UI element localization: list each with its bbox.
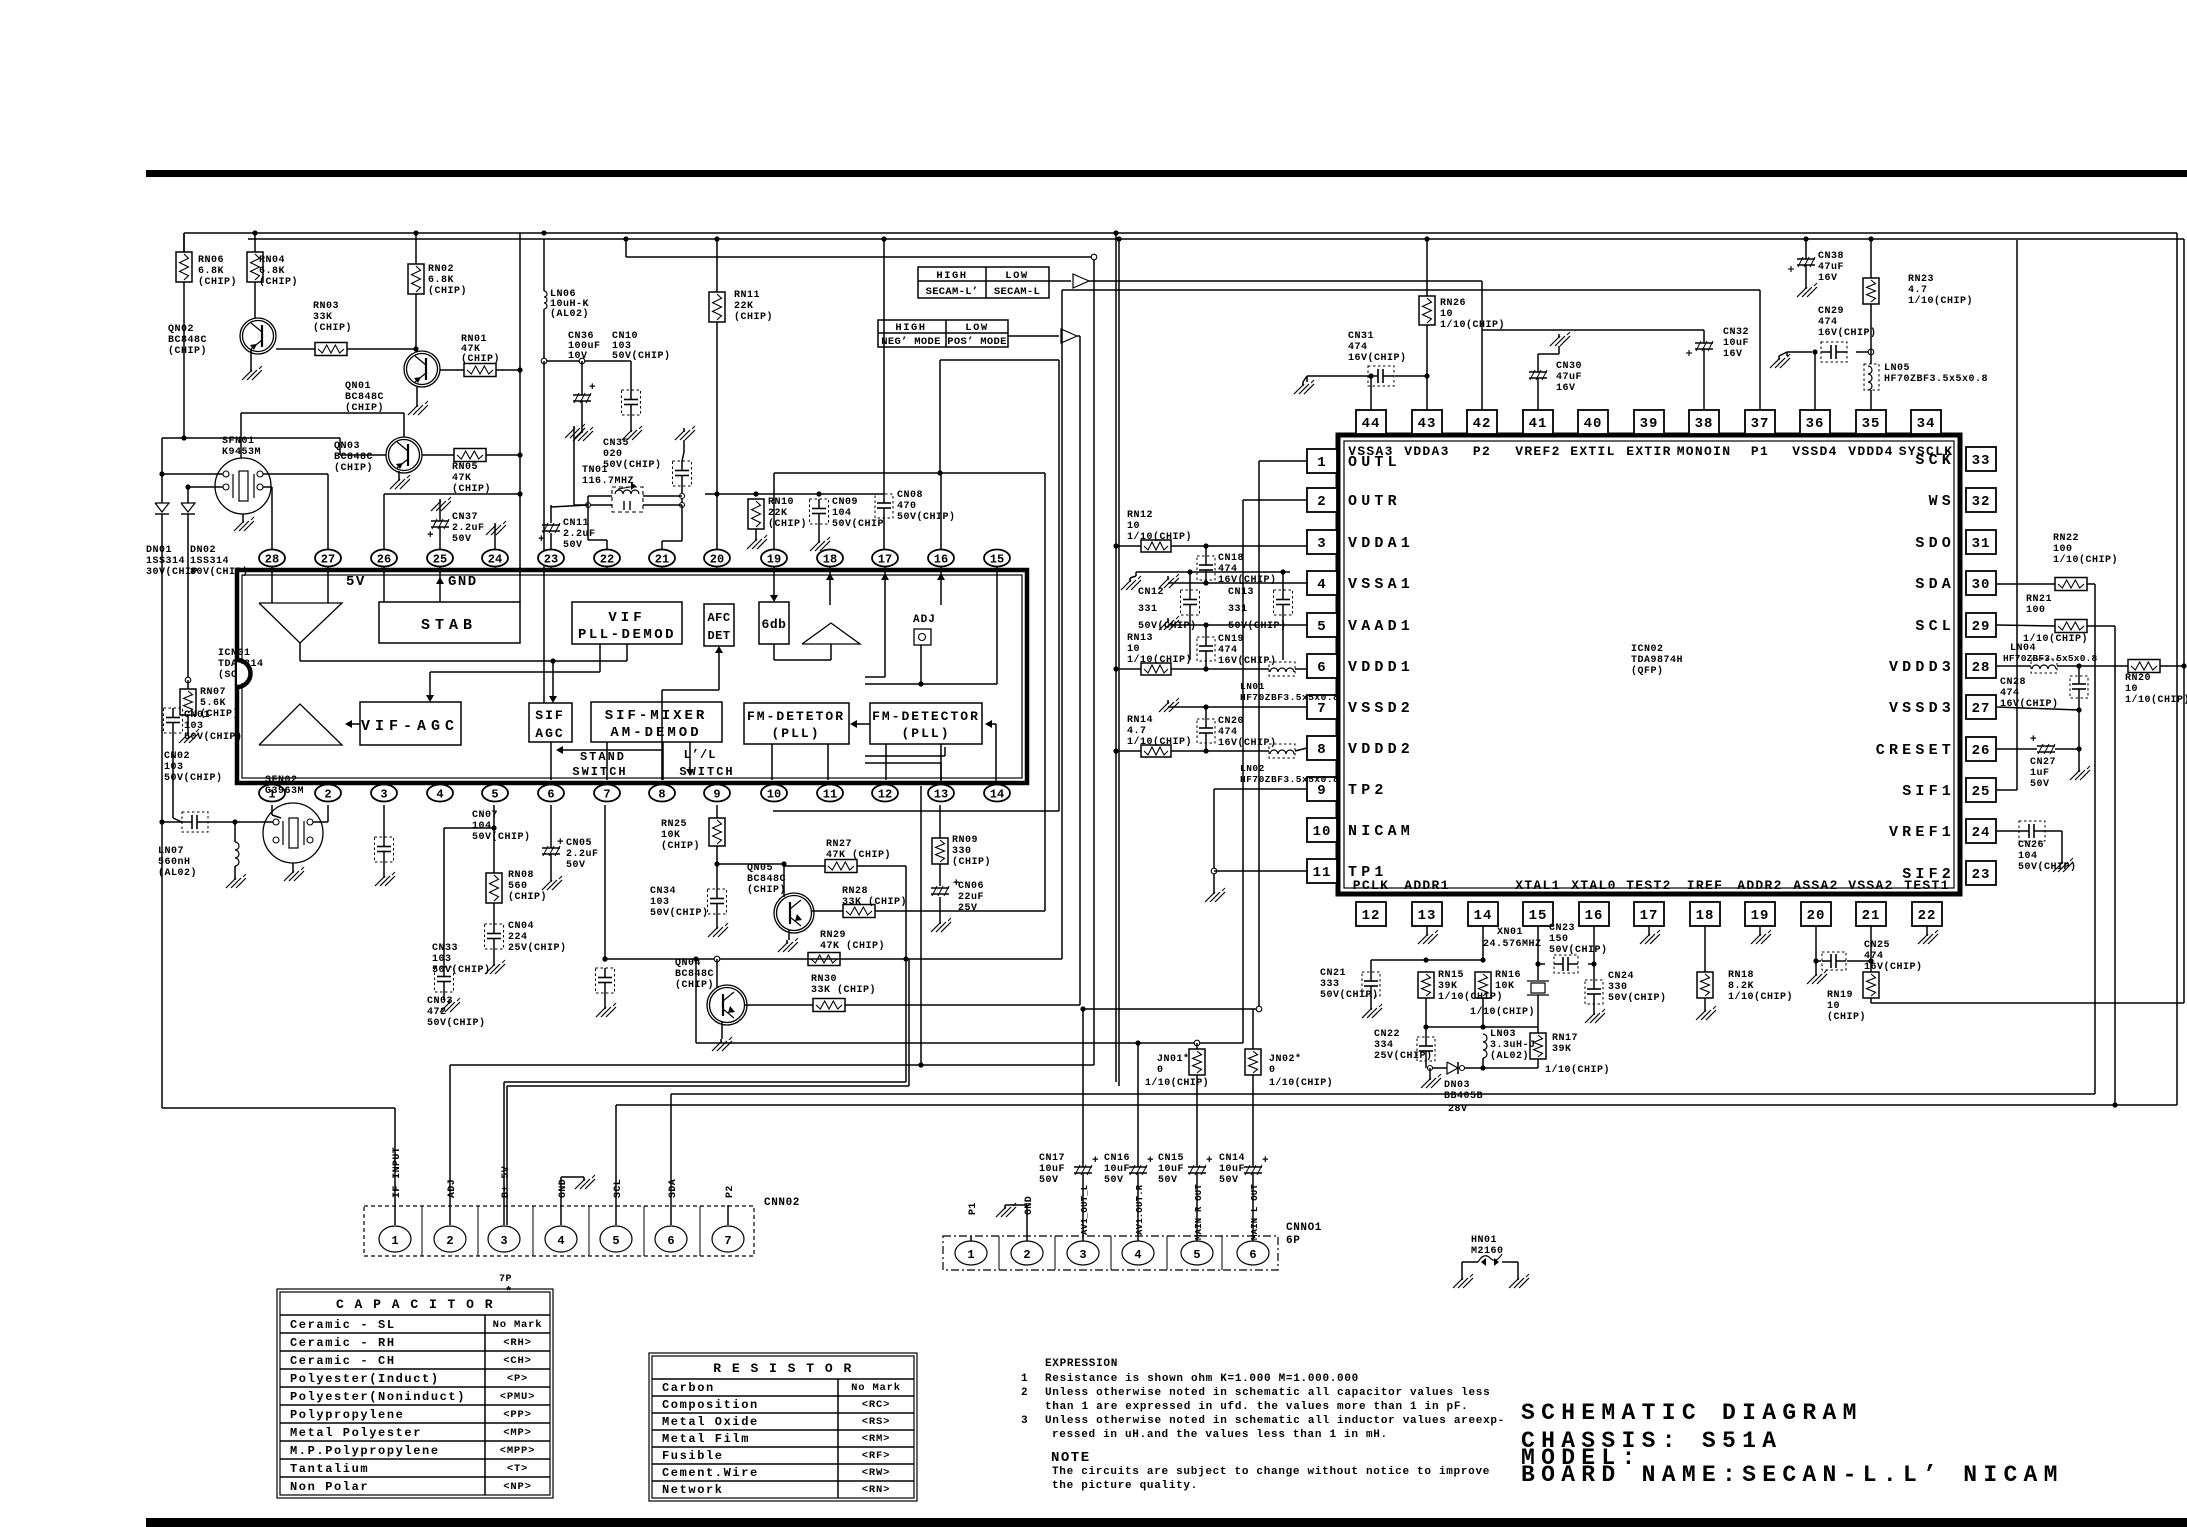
svg-text:RN23: RN23 [1908, 274, 1934, 285]
svg-text:50V: 50V [563, 540, 583, 551]
svg-text:P1: P1 [968, 1202, 979, 1215]
svg-text:SIF: SIF [535, 708, 564, 723]
svg-text:LN03: LN03 [1490, 1029, 1516, 1040]
ground pin17 [1640, 930, 1660, 944]
svg-text:2: 2 [324, 788, 331, 802]
wire RN10 gnd [755, 529, 757, 537]
svg-text:CN21: CN21 [1320, 968, 1346, 979]
svg-text:11: 11 [1313, 865, 1332, 881]
label RN22 [2053, 533, 2118, 566]
svg-text:LN07: LN07 [158, 846, 184, 857]
svg-text:47uF: 47uF [1818, 262, 1844, 273]
svg-text:10uF: 10uF [1158, 1164, 1184, 1175]
svg-text:QN04: QN04 [675, 958, 701, 969]
svg-text:RN14: RN14 [1127, 715, 1153, 726]
wire MODE to arrow [1008, 335, 1059, 337]
pin 11 ICN02 left [1307, 859, 1337, 883]
node TP junction [1211, 868, 1217, 874]
svg-text:43: 43 [1418, 416, 1437, 432]
svg-text:50V: 50V [1158, 1175, 1178, 1186]
svg-text:32: 32 [1972, 494, 1991, 510]
pin 42 ICN02 top [1467, 410, 1497, 434]
svg-text:Metal Film: Metal Film [662, 1432, 750, 1446]
ground CN24 [1585, 1009, 1605, 1023]
pin 19 ICN02 bottom [1745, 902, 1775, 926]
resistor RN10 [748, 497, 807, 530]
svg-text:RN22: RN22 [2053, 533, 2079, 544]
wire CN28 [2076, 666, 2081, 749]
capacitor CN30 [1529, 361, 1582, 394]
wire QN04 emitter [721, 1022, 723, 1039]
wire RN02 top [415, 233, 417, 264]
pin 3 ICN01 bottom [371, 783, 397, 802]
IC ICN01 outline [237, 570, 1027, 783]
svg-text:39K: 39K [1552, 1044, 1572, 1055]
capacitor CN37 [427, 512, 485, 545]
svg-text:Polyester(Noninduct): Polyester(Noninduct) [290, 1390, 466, 1404]
svg-text:CN23: CN23 [1549, 923, 1575, 934]
wire CNN01 divider [1054, 1236, 1056, 1270]
text title MODEL [1521, 1445, 1642, 1471]
svg-text:2: 2 [1317, 494, 1326, 510]
wire row y959 [602, 956, 1062, 962]
wire RN07 [187, 680, 189, 731]
svg-text:020: 020 [603, 449, 623, 460]
svg-text:16V(CHIP): 16V(CHIP) [1348, 352, 1407, 364]
svg-text:24: 24 [488, 553, 502, 567]
resistor RN26 [1419, 296, 1505, 331]
pin name VDDD1 [1348, 659, 1414, 676]
svg-text:(AL02): (AL02) [1490, 1050, 1529, 1062]
pin name ADDR2 [1737, 878, 1783, 893]
arrow SECAM [1073, 274, 1089, 288]
pin name ASSA2 [1793, 878, 1839, 893]
ground CN06 [931, 918, 951, 932]
pin name NICAM [1348, 823, 1414, 840]
wire VSSD3 row [1997, 707, 2079, 710]
svg-text:No Mark: No Mark [493, 1319, 543, 1331]
table SECAM high-low [918, 267, 1049, 298]
svg-text:QN03: QN03 [334, 441, 360, 452]
pin 24 ICN01 top [482, 550, 508, 571]
svg-text:3: 3 [380, 788, 387, 802]
label CNN01 [1286, 1222, 1322, 1247]
wire TN01 bottom row [586, 503, 683, 508]
filter SFN02 [263, 775, 323, 881]
ground DN03 [1421, 1074, 1441, 1088]
svg-text:PCLK: PCLK [1353, 878, 1389, 893]
ground pin13 [1418, 930, 1438, 944]
svg-text:(CHIP): (CHIP) [334, 462, 373, 474]
pin 34 ICN02 top [1911, 410, 1941, 434]
text NOTE [1051, 1450, 1091, 1466]
pin name VDDD2 [1348, 741, 1414, 758]
text note1 [1021, 1373, 1359, 1385]
svg-text:4.7: 4.7 [1908, 285, 1928, 296]
svg-text:50V: 50V [452, 534, 472, 545]
svg-text:No Mark: No Mark [851, 1382, 901, 1394]
pin 6 ICN02 left [1307, 654, 1337, 678]
wire row y960 [1371, 957, 1486, 962]
pin 15 ICN01 top [984, 550, 1010, 571]
svg-text:CN32: CN32 [1723, 327, 1749, 338]
inductor LN07 [158, 842, 239, 879]
wire CN15 line [1196, 1077, 1198, 1241]
svg-text:IREF: IREF [1687, 878, 1723, 893]
capacitor CN13 [1228, 587, 1293, 632]
inductor LN02 [1240, 744, 1339, 785]
svg-text:9: 9 [713, 788, 720, 802]
svg-text:10: 10 [1827, 1001, 1840, 1012]
svg-text:VDDD2: VDDD2 [1348, 741, 1414, 758]
svg-text:16V: 16V [1723, 349, 1743, 360]
svg-text:1/10(CHIP): 1/10(CHIP) [2053, 554, 2118, 566]
wire B5V route A [504, 1082, 906, 1225]
pin 3 ICN02 left [1307, 530, 1337, 554]
svg-text:CN12: CN12 [1138, 587, 1164, 598]
wire CN13 down [1282, 572, 1284, 660]
wire RN06 bottom drop [181, 282, 186, 441]
label 7P [499, 1274, 512, 1299]
pin name CRESET [1876, 742, 1955, 759]
wire QN01 emitter [416, 387, 418, 403]
svg-text:6: 6 [1317, 660, 1326, 676]
wire RN02 to QN01 [413, 294, 418, 352]
wire SDA route bottom [671, 1094, 2095, 1225]
pin name TP2 [1348, 782, 1388, 799]
svg-text:CN22: CN22 [1374, 1029, 1400, 1040]
pin name VDDA3 [1404, 444, 1450, 459]
svg-text:VSSA2: VSSA2 [1848, 878, 1894, 893]
svg-text:560nH: 560nH [158, 857, 191, 868]
capacitor CN06 [931, 878, 984, 914]
text noteB [1052, 1480, 1198, 1492]
svg-text:474: 474 [1348, 342, 1368, 353]
pin 3 CNN01 [1067, 1241, 1099, 1265]
svg-text:47K (CHIP): 47K (CHIP) [826, 849, 891, 861]
pin 6 ICN01 bottom [538, 783, 564, 802]
pin name SDO [1915, 535, 1955, 552]
svg-text:HF70ZBF3.5x5x0.8: HF70ZBF3.5x5x0.8 [1240, 692, 1339, 703]
label RN17b [1545, 1064, 1610, 1076]
ground QN01 [408, 401, 428, 415]
svg-text:11: 11 [823, 788, 837, 802]
block AFC DET [704, 604, 734, 646]
wire LN06 to CN36 node [541, 358, 631, 364]
capacitor CN23 [1554, 955, 1578, 973]
wire tri1 to row [300, 643, 627, 664]
wire RN08 CN04 [493, 903, 495, 924]
wire net y1043 [696, 1040, 1243, 1046]
transformer TN01 [582, 465, 643, 512]
pin 7 ICN02 left [1307, 695, 1337, 719]
resistor RN05 [452, 449, 491, 496]
svg-text:CN33: CN33 [432, 943, 458, 954]
wire SECAM-L to pin42 [1089, 280, 1482, 282]
svg-text:1SS314: 1SS314 [190, 556, 229, 567]
pin 40 ICN02 top [1578, 410, 1608, 434]
wire pin22 gnd [1926, 926, 1928, 932]
wire pin21 to AFC [662, 646, 723, 780]
svg-text:2: 2 [1023, 1248, 1030, 1262]
svg-text:EXTIL: EXTIL [1570, 444, 1616, 459]
ground VSSD2 [1159, 698, 1179, 712]
svg-text:XN01: XN01 [1497, 927, 1523, 938]
svg-text:6.8K: 6.8K [259, 266, 285, 277]
wire pin38 CN32 [1482, 330, 1704, 410]
svg-text:42: 42 [1473, 416, 1492, 432]
svg-text:RN11: RN11 [734, 290, 760, 301]
svg-text:4: 4 [1134, 1248, 1141, 1262]
capacitor CN19 [1197, 634, 1277, 667]
pin 27 ICN01 top [315, 550, 341, 571]
capacitor CN36 [568, 331, 601, 403]
pin name XTAL1 [1515, 878, 1561, 893]
wire CN03 branch [444, 828, 494, 967]
wire CN38 [1805, 239, 1807, 285]
svg-text:BC848C: BC848C [675, 969, 714, 980]
wire net y494 [705, 491, 884, 496]
capacitor CN10 [612, 331, 671, 415]
wire pin16 internal arrow [937, 567, 945, 605]
label P2 CNN02 [725, 1185, 736, 1198]
ground QN04 [712, 1037, 732, 1051]
svg-text:<RH>: <RH> [503, 1337, 531, 1349]
svg-text:6: 6 [547, 788, 554, 802]
pin 2 ICN01 bottom [315, 783, 341, 802]
svg-text:than 1 are expressed in ufd. t: than 1 are expressed in ufd. the values … [1045, 1401, 1468, 1413]
pin 28 ICN02 right [1966, 654, 1996, 678]
inductor LN03 [1483, 1029, 1536, 1062]
pin name VSSA2 [1848, 878, 1894, 893]
wire CN19 [1205, 625, 1207, 669]
svg-text:(PLL): (PLL) [901, 726, 950, 741]
pin 13 ICN01 bottom [928, 783, 954, 802]
svg-text:103: 103 [432, 954, 452, 965]
wire CN33 gnd [604, 993, 606, 1005]
svg-text:50V(CHIP): 50V(CHIP) [1608, 992, 1667, 1004]
svg-text:RN07: RN07 [200, 687, 226, 698]
svg-text:50V(CHIP): 50V(CHIP) [897, 511, 956, 523]
svg-text:12: 12 [1362, 908, 1381, 924]
resistor RN07 [180, 687, 239, 720]
svg-text:VSSD4: VSSD4 [1792, 444, 1838, 459]
svg-text:B+ 5V: B+ 5V [501, 1166, 512, 1198]
wire pin22 internal [606, 742, 608, 780]
pin 17 ICN02 bottom [1634, 902, 1664, 926]
svg-text:QN05: QN05 [747, 863, 773, 874]
svg-text:STAND: STAND [580, 750, 626, 764]
svg-text:20: 20 [1807, 908, 1826, 924]
svg-text:1/10(CHIP): 1/10(CHIP) [1440, 319, 1505, 331]
svg-text:224: 224 [508, 932, 528, 943]
wire CN16 line [1137, 1043, 1139, 1241]
ground CN21 [1362, 1004, 1382, 1018]
pin 8 ICN02 left [1307, 736, 1337, 760]
svg-text:Tantalium: Tantalium [290, 1462, 369, 1476]
svg-text:7: 7 [603, 788, 610, 802]
capacitor CN09 [810, 497, 885, 530]
wire LN01 to pin6 [1295, 668, 1307, 670]
svg-text:CN19: CN19 [1218, 634, 1244, 645]
wire xtal down [1537, 995, 1539, 1027]
ground CN26 [2053, 858, 2073, 872]
svg-text:474: 474 [1218, 645, 1238, 656]
svg-text:TEST1: TEST1 [1904, 878, 1950, 893]
label CNN02 [764, 1197, 800, 1209]
ground CN27 [2070, 766, 2090, 780]
inductor LN04 [2031, 659, 2057, 673]
svg-text:CNN02: CNN02 [764, 1197, 800, 1209]
svg-text:Unless otherwise noted in sche: Unless otherwise noted in schematic all … [1045, 1387, 1490, 1399]
svg-text:25: 25 [433, 553, 447, 567]
wire VSSD2 row [1168, 704, 1307, 709]
svg-text:LOW: LOW [1005, 270, 1028, 282]
wire LN07 [234, 822, 236, 876]
svg-text:1/10(CHIP): 1/10(CHIP) [1908, 295, 1973, 307]
wire B+5V bus drop A [1115, 233, 1117, 1082]
pin name VAAD1 [1348, 618, 1414, 635]
wire CN12 gnd stub [1130, 572, 1136, 578]
svg-text:PLL-DEMOD: PLL-DEMOD [578, 627, 676, 643]
pin 23 ICN01 top [538, 550, 564, 571]
svg-text:27: 27 [1972, 701, 1991, 717]
svg-text:100: 100 [2053, 544, 2073, 555]
pin 11 ICN01 bottom [817, 783, 843, 802]
svg-text:NOTE: NOTE [1051, 1450, 1091, 1466]
svg-text:50V(CHIP): 50V(CHIP) [1228, 620, 1287, 632]
wire QN05 emitter [788, 930, 790, 940]
wire tri3 arrow [345, 720, 360, 728]
resistor RN13h [1141, 663, 1171, 675]
wire RN20 right [2160, 663, 2187, 668]
svg-text:CNNO1: CNNO1 [1286, 1222, 1322, 1234]
svg-text:15: 15 [1529, 908, 1548, 924]
svg-text:41: 41 [1529, 416, 1548, 432]
capacitor CN26 [2018, 821, 2077, 873]
pin name SIF2 [1902, 866, 1955, 883]
svg-text:334: 334 [1374, 1040, 1394, 1051]
pin name ADDR1 [1404, 878, 1450, 893]
svg-text:14: 14 [1474, 908, 1493, 924]
svg-text:Resistance is shown ohm K=1.00: Resistance is shown ohm K=1.000 M=1.000.… [1045, 1373, 1359, 1385]
svg-text:(CHIP): (CHIP) [259, 276, 298, 288]
pin 39 ICN02 top [1634, 410, 1664, 434]
wire right edge rail A down [2176, 233, 2178, 1105]
svg-text:2: 2 [1021, 1387, 1028, 1399]
wire staircase v1 [1044, 473, 1046, 911]
label RN14 [1127, 715, 1192, 748]
IC ICN02 outline [1338, 435, 1960, 894]
svg-text:RN02: RN02 [428, 264, 454, 275]
label SDA CNN02 [668, 1179, 679, 1198]
wire QN05 collector [812, 910, 843, 912]
svg-text:31: 31 [1972, 536, 1991, 552]
wire staircase v3 [1079, 336, 1081, 1005]
svg-text:(CHIP): (CHIP) [747, 884, 786, 896]
svg-text:104: 104 [2018, 851, 2038, 862]
svg-text:(CHIP): (CHIP) [734, 311, 773, 323]
svg-text:10: 10 [1127, 644, 1140, 655]
pin name OUTR [1348, 493, 1401, 510]
svg-text:+: + [1206, 1155, 1213, 1167]
wire pin3 CN07 [383, 805, 385, 874]
wire CN27 gnd [2078, 749, 2080, 768]
svg-text:ADDR1: ADDR1 [1404, 878, 1450, 893]
resistor JN02 [1245, 1049, 1333, 1089]
svg-text:26: 26 [377, 553, 391, 567]
wire pin25 internal [436, 567, 444, 602]
ground CN10 [622, 426, 642, 440]
svg-text:(CHIP): (CHIP) [768, 518, 807, 530]
wire CN17 line [1082, 1009, 1084, 1241]
wire CNN02 divider [643, 1206, 645, 1256]
resistor RN03 [313, 301, 352, 356]
svg-text:CN14: CN14 [1219, 1153, 1245, 1164]
wire TP1 row [1214, 871, 1307, 890]
wire row to SIF AGC [549, 661, 557, 703]
svg-text:G3963M: G3963M [265, 786, 304, 797]
wire pin1 to SFN02 [272, 805, 281, 818]
label P1 CNN01 [968, 1202, 979, 1215]
capacitor CN11 [538, 518, 596, 551]
capacitor CN16 [1104, 1153, 1154, 1186]
svg-text:474: 474 [1218, 564, 1238, 575]
wire RN04 top [254, 233, 256, 252]
wire CRESET row [1997, 746, 2082, 751]
label SCL CNN02 [613, 1179, 624, 1198]
pin 23 ICN02 right [1966, 861, 1996, 885]
svg-text:CN31: CN31 [1348, 331, 1374, 342]
svg-text:SIF-MIXER: SIF-MIXER [605, 708, 708, 724]
text note2b [1045, 1401, 1468, 1413]
svg-text:37: 37 [1751, 416, 1770, 432]
svg-text:+: + [557, 837, 564, 849]
wire RN17 [1537, 1027, 1539, 1068]
wire pin26 5V [384, 491, 523, 549]
wire row to VIFdemod [626, 644, 628, 661]
capacitor CN18 [1197, 553, 1277, 586]
inductor LN01 [1240, 662, 1339, 703]
svg-text:20: 20 [710, 553, 724, 567]
svg-text:TDA9874H: TDA9874H [1631, 655, 1683, 666]
wire net y1009 [1080, 1006, 1261, 1012]
wire pin44 stub [1368, 373, 1373, 410]
wire pin19 stub [773, 473, 775, 549]
ground CN35 top [675, 426, 695, 440]
svg-text:103: 103 [650, 897, 670, 908]
svg-text:100: 100 [2026, 605, 2046, 616]
ground CN04 [485, 960, 505, 974]
pin name TP1 [1348, 864, 1388, 881]
capacitor CN27 [2030, 734, 2056, 790]
svg-text:VDDD3: VDDD3 [1889, 659, 1955, 676]
pin 14 ICN02 bottom [1468, 902, 1498, 926]
svg-text:HF70ZBF3.5x5x0.8: HF70ZBF3.5x5x0.8 [1240, 774, 1339, 785]
svg-text:333: 333 [1320, 979, 1340, 990]
svg-text:10uF: 10uF [1219, 1164, 1245, 1175]
svg-text:47K (CHIP): 47K (CHIP) [820, 940, 885, 952]
svg-text:CN34: CN34 [650, 886, 676, 897]
svg-text:33K: 33K [313, 312, 333, 323]
capacitor CN32 [1686, 327, 1749, 360]
wire LN05 [1870, 342, 1872, 410]
svg-text:CN29: CN29 [1818, 306, 1844, 317]
svg-text:4.7: 4.7 [1127, 726, 1147, 737]
svg-text:50V(CHIP): 50V(CHIP) [432, 964, 491, 976]
svg-text:10K: 10K [661, 830, 681, 841]
pin 41 ICN02 top [1523, 410, 1553, 434]
